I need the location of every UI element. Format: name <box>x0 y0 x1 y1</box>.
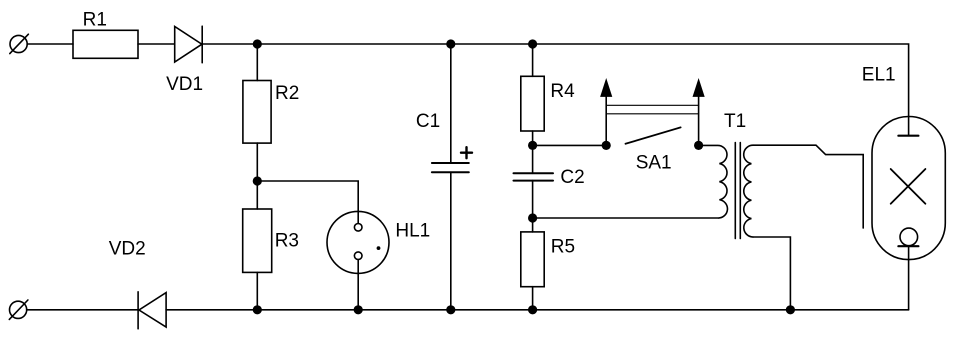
svg-text:C2: C2 <box>560 167 584 188</box>
node C1 bottom <box>446 305 455 314</box>
wire T1 secondary bottom to bottom rail <box>753 237 790 310</box>
terminal X2 (bottom-left input) <box>9 300 28 319</box>
wire top rail to R4 <box>532 44 534 76</box>
svg-text:EL1: EL1 <box>862 65 896 86</box>
node C (C2/R5/T1 junction) <box>528 213 537 222</box>
svg-text:R3: R3 <box>275 230 299 251</box>
capacitor C1 <box>432 163 469 172</box>
neon lamp HL1 <box>327 211 389 273</box>
wire node B to SA1 <box>533 144 607 146</box>
resistor R4 <box>521 76 544 131</box>
terminal X1 (top-left input) <box>10 34 29 53</box>
svg-text:SA1: SA1 <box>636 152 672 173</box>
switch SA1 left pole <box>601 80 612 146</box>
wire top rail VD1 to EL1 <box>202 44 908 136</box>
wire node C to R5 <box>532 218 534 232</box>
svg-text:C1: C1 <box>416 111 440 132</box>
node top of C1 <box>446 39 455 48</box>
resistor R1 <box>73 30 138 58</box>
svg-text:R1: R1 <box>83 9 107 30</box>
wire R3 to bottom rail <box>256 272 258 309</box>
wire node A to R3 <box>256 181 258 209</box>
wire EL1 bottom lead <box>908 246 910 310</box>
wire R2 to node A <box>256 143 258 181</box>
wire top rail to R2 <box>256 44 258 81</box>
node HL1 bottom <box>354 305 363 314</box>
wire R4 to node B <box>532 131 534 145</box>
wire T1 secondary top to EL1 strip <box>753 145 863 228</box>
node A (R2/R3/HL1 junction) <box>253 176 262 185</box>
svg-text:T1: T1 <box>724 111 746 132</box>
resistor R5 <box>521 232 544 287</box>
switch SA1 lever <box>626 127 681 143</box>
wire HL1 to bottom rail <box>357 260 359 310</box>
wire terminal to VD2 <box>27 309 138 311</box>
svg-text:R2: R2 <box>275 83 299 104</box>
svg-text:VD2: VD2 <box>109 239 146 260</box>
wire R1 to VD1 <box>138 43 175 45</box>
diode VD2 <box>138 292 166 329</box>
wire node B to C2 <box>532 145 534 173</box>
node R3 bottom <box>253 305 262 314</box>
node R5 bottom <box>528 305 537 314</box>
node secondary-bottom on bottom rail <box>786 305 795 314</box>
lamp EL1 bottom electrode circle <box>900 228 918 246</box>
node B (R4/C2/SA1 junction) <box>528 141 537 150</box>
transformer T1 primary winding <box>533 145 728 218</box>
wire bottom rail VD2 to EL1 <box>166 309 909 311</box>
transformer T1 core <box>735 143 740 239</box>
wire R5 to bottom rail <box>532 287 534 310</box>
lamp EL1 envelope <box>872 117 945 260</box>
lamp EL1 cross <box>891 169 926 204</box>
wire C1 to bottom rail <box>450 172 452 310</box>
node SA1 right contact <box>694 141 703 150</box>
wire top rail to C1 <box>450 44 452 163</box>
lamp EL1 top electrode <box>898 135 918 137</box>
transformer T1 secondary winding <box>744 145 753 237</box>
wire C2 to node C <box>532 181 534 218</box>
polarity plus of C1 <box>461 147 472 158</box>
resistor R3 <box>243 209 272 272</box>
node top of R2 <box>253 39 262 48</box>
svg-text:VD1: VD1 <box>166 74 203 95</box>
wire node A to HL1 <box>257 181 358 223</box>
resistor R2 <box>243 81 271 144</box>
switch SA1 right pole <box>693 80 704 146</box>
switch SA1 linkage lines <box>606 105 698 114</box>
node top of R4 <box>528 39 537 48</box>
node SA1 left contact <box>602 141 611 150</box>
capacitor C2 <box>514 173 554 180</box>
diode VD1 <box>175 26 203 63</box>
svg-text:R5: R5 <box>551 237 575 258</box>
svg-text:R4: R4 <box>550 81 575 102</box>
wire terminal to R1 <box>27 43 73 45</box>
svg-text:HL1: HL1 <box>395 220 430 241</box>
